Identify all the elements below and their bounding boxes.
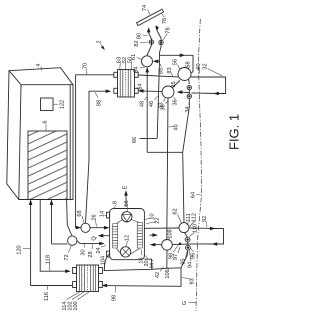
wire pump 72 left leg (52, 243, 68, 245)
wire 116 (bottom HX to box) (31, 285, 72, 287)
label 60 (196, 63, 202, 73)
svg-text:14: 14 (100, 211, 106, 217)
label 98 lower (112, 286, 118, 301)
wire 80 (valve61 up to coil 74, arrow up) (147, 30, 152, 56)
svg-text:61: 61 (131, 54, 137, 60)
label 46 (149, 96, 158, 107)
pump 68 (81, 223, 90, 232)
svg-text:92: 92 (202, 216, 208, 222)
label 78 (163, 27, 172, 40)
svg-text:26: 26 (92, 214, 98, 220)
svg-text:24: 24 (96, 247, 102, 253)
wire 93 (valves down to HX100 bottom, arrow left) (104, 256, 187, 286)
label 34 (185, 100, 191, 113)
wire riser into valve 61 (arrow up), label 54 (146, 68, 148, 152)
label 10 (145, 213, 156, 219)
svg-text:83: 83 (167, 67, 173, 73)
valve 34 (187, 94, 191, 98)
wire valve stack vertical (188, 90, 190, 107)
cabinet tab lower (107, 251, 110, 257)
label G (182, 301, 196, 305)
wire box port to pump 72 top (67, 200, 72, 237)
label 112 (190, 213, 198, 226)
pump 72 (68, 236, 77, 245)
label 16 (124, 200, 130, 211)
label 42 (155, 267, 164, 279)
label 56 (173, 59, 181, 70)
wire valve 33 to HX50 right-bottom (arrow left) (141, 90, 163, 93)
box 4 left side face (7, 71, 19, 200)
label 72 (64, 246, 71, 261)
label 36 (173, 97, 179, 106)
valve upper near 58 (187, 85, 191, 89)
label 8 (113, 201, 119, 209)
label 76 (162, 14, 169, 25)
svg-text:104: 104 (101, 256, 107, 265)
svg-text:68: 68 (77, 210, 83, 216)
cabinet tab 14 (107, 212, 110, 218)
label 104 (101, 256, 107, 269)
svg-text:FIG. 1: FIG. 1 (227, 114, 241, 150)
label 68 (77, 210, 84, 223)
indoor unit cabinet 8 (110, 209, 145, 260)
svg-text:116: 116 (44, 292, 50, 301)
label 93 (182, 278, 196, 285)
svg-text:62: 62 (173, 208, 179, 214)
svg-text:54: 54 (138, 83, 144, 89)
valve 110 upper (185, 237, 190, 242)
svg-text:66: 66 (132, 137, 138, 143)
label 106 (165, 268, 171, 279)
svg-text:44: 44 (150, 263, 156, 269)
svg-text:70: 70 (83, 63, 89, 69)
junction dot (179, 243, 182, 246)
label 30 (81, 244, 87, 256)
wire 32 loop (compressor right, down, left arrow) (191, 77, 226, 94)
svg-text:G: G (182, 301, 188, 305)
wire into valve 61 right (arrow left) (156, 60, 160, 62)
svg-text:118: 118 (46, 255, 52, 264)
wire 118 (box down to bottom HX, arrow right) (40, 200, 68, 272)
HX100 port left-top (73, 268, 77, 274)
svg-text:4: 4 (36, 63, 42, 66)
outdoor coil 74 (slanted bar) (137, 9, 164, 25)
label 33 (159, 98, 166, 109)
svg-text:38: 38 (161, 104, 167, 110)
wire from coil 74 down through valve 78 (arrow down) (156, 26, 158, 29)
label 38 (161, 101, 168, 111)
arrow into pump 68 (76, 226, 81, 230)
svg-text:58: 58 (186, 61, 192, 67)
svg-text:74: 74 (142, 5, 148, 11)
cabinet bottom hook 42/44 (144, 259, 151, 268)
wire into valve 33 (arrow left) (180, 91, 190, 93)
label 102 (68, 292, 85, 311)
svg-text:64: 64 (191, 192, 197, 198)
valve pair vertical link (187, 242, 188, 256)
heat exchanger 100 body (77, 265, 99, 292)
heat exchanger 50 body (118, 70, 135, 98)
HX50 port left-bottom (114, 88, 118, 93)
svg-text:54: 54 (134, 66, 140, 72)
label 50 (128, 57, 134, 70)
label 80 (137, 33, 148, 39)
svg-text:48: 48 (140, 101, 146, 107)
box 4 enclosure top face (9, 68, 73, 85)
label 83 (167, 67, 173, 76)
heater circle 62 (179, 223, 189, 233)
label 22 (146, 217, 161, 223)
svg-text:40: 40 (174, 124, 180, 130)
label 24 (96, 246, 106, 254)
sensor 122 square (41, 98, 66, 111)
svg-text:98: 98 (112, 295, 118, 301)
wire 38/40 (valve 33 down to receiver 108) (167, 98, 168, 240)
svg-text:95: 95 (181, 258, 187, 264)
svg-text:96: 96 (191, 253, 197, 259)
svg-text:16: 16 (124, 200, 130, 206)
wire 120 (return to box, arrow up) (30, 201, 32, 286)
four-way valve 61 (142, 56, 153, 67)
main liquid line through receiver 108 (153, 244, 162, 246)
svg-text:2: 2 (97, 40, 103, 43)
svg-text:100: 100 (73, 301, 79, 310)
HX100 port left-bottom (73, 282, 77, 288)
label 95 (181, 251, 188, 265)
svg-text:120: 120 (17, 245, 23, 254)
label 26 (92, 214, 98, 226)
svg-text:30: 30 (81, 249, 87, 255)
svg-text:108: 108 (168, 229, 174, 238)
svg-text:Q: Q (92, 236, 98, 241)
wire cabinet to heater 62 (144, 227, 179, 229)
svg-text:35: 35 (171, 81, 177, 87)
svg-text:34: 34 (185, 106, 191, 112)
wire 48 horizontal to expansion line (147, 151, 183, 153)
label 120 (17, 245, 31, 254)
label 54 lower (138, 83, 144, 90)
suction valve 33 (162, 86, 174, 98)
wire from pump 72 up into box (arrow up) (51, 201, 53, 244)
fan 16 (circle with triangle) (122, 212, 132, 222)
label 12 (125, 235, 131, 247)
coil right (137, 223, 142, 249)
svg-text:12: 12 (125, 235, 131, 241)
label 20 (144, 256, 150, 267)
svg-text:94: 94 (188, 262, 194, 268)
fan 12 (circle with cross) (120, 247, 130, 257)
label 63 (117, 57, 123, 70)
box 4 front face (19, 85, 73, 200)
valve lower 94 (186, 245, 191, 250)
label 118 (46, 255, 52, 271)
label 32 (203, 63, 223, 76)
fan-coil links (117, 220, 140, 255)
wire HX50 right-top to compressor 58 (138, 75, 178, 77)
HX100 port right-top (99, 268, 103, 274)
receiver 108 (162, 240, 173, 251)
label 44 (150, 260, 156, 269)
svg-text:E: E (123, 185, 129, 189)
wire 106 (receiver down) (166, 250, 168, 268)
label 40 (168, 124, 180, 130)
label 14 (100, 211, 107, 217)
HX50 port left-top (114, 72, 118, 77)
svg-text:80: 80 (137, 33, 143, 39)
wire 26 (pump 68 to indoor unit, arrow right) (90, 227, 107, 229)
label 114 (62, 292, 80, 310)
svg-text:28: 28 (88, 251, 94, 257)
svg-text:88: 88 (97, 100, 103, 106)
pipe 104 curve (104, 254, 109, 271)
svg-text:112: 112 (191, 213, 197, 222)
label 64 (191, 192, 202, 198)
svg-text:122: 122 (60, 100, 66, 109)
svg-text:93: 93 (190, 278, 196, 284)
label 4 (36, 63, 42, 70)
svg-text:6: 6 (43, 120, 49, 123)
label 85 (159, 64, 165, 75)
HX100 port right-bottom (99, 282, 103, 288)
svg-text:60: 60 (196, 63, 202, 69)
svg-text:78: 78 (166, 27, 172, 33)
wire 62 bottom to valve pair (185, 233, 188, 238)
valve 78 (159, 40, 163, 44)
label 74 (142, 5, 150, 15)
label 70 (83, 63, 89, 75)
svg-text:82: 82 (134, 40, 140, 46)
label 92 (202, 216, 208, 227)
svg-text:72: 72 (64, 254, 70, 260)
cabinet right air arrow (150, 234, 156, 236)
label 61 (131, 54, 142, 60)
wire 34 drop to expansion device 62 (183, 107, 190, 223)
svg-text:36: 36 (173, 99, 179, 105)
label 52 (122, 57, 128, 70)
wire compressor 58 down to valves (188, 80, 191, 85)
svg-text:46: 46 (149, 101, 155, 107)
label 88 (95, 93, 103, 107)
wire 35 (33 to 58) (172, 81, 180, 88)
label 98 upper (168, 245, 178, 260)
label 97 (173, 247, 180, 260)
wire from pump 72 to indoor unit (arrow right) (77, 241, 102, 244)
HX50 port right-bottom (135, 88, 139, 93)
wire 70 (HX50 left-top down along box to pump 68) (76, 75, 114, 228)
hatched element 6 (28, 120, 67, 199)
svg-text:8: 8 (113, 201, 119, 204)
air arrow E (125, 193, 127, 208)
wire 92 loop (62 right, down, left arrow to valves) (189, 227, 212, 230)
phantom boundary line 64/G (196, 19, 202, 311)
label 94 (188, 251, 194, 269)
wire from HX100 right-top across to line 93 (104, 268, 182, 271)
label 18 (139, 250, 145, 264)
svg-text:98: 98 (168, 253, 174, 259)
coil left 24 (113, 224, 118, 249)
label 96 (190, 248, 196, 259)
wire 66 stub (140, 137, 158, 139)
label 116 (44, 286, 50, 301)
svg-text:76: 76 (162, 18, 168, 24)
label 108 (168, 229, 174, 239)
label 28 (88, 244, 94, 258)
wire discharge to compressor 58 (arrow right) (160, 54, 183, 56)
label 62 (173, 208, 182, 223)
label 2 with arrow (97, 40, 105, 50)
svg-text:110: 110 (193, 224, 199, 233)
box 4 inner wall line (69, 85, 71, 200)
label 82 (134, 40, 149, 46)
heat output arrow Q (101, 235, 110, 237)
valve 82 (149, 40, 153, 44)
svg-text:56: 56 (173, 59, 179, 65)
svg-text:106: 106 (165, 269, 171, 278)
HX50 port right-top (135, 72, 139, 77)
label 48 (140, 97, 147, 107)
svg-text:42: 42 (155, 272, 161, 278)
compressor 58 (178, 68, 191, 81)
wire 88 (pump 68 up to HX50 left-bottom port, arrow right) (86, 91, 109, 223)
label 100 (73, 292, 89, 311)
svg-text:22: 22 (155, 217, 161, 223)
label 58 (186, 61, 192, 69)
label 111 (186, 213, 192, 224)
label 110 (189, 224, 198, 236)
wire 46 (valve 61 junction down to line 66) (157, 61, 159, 138)
